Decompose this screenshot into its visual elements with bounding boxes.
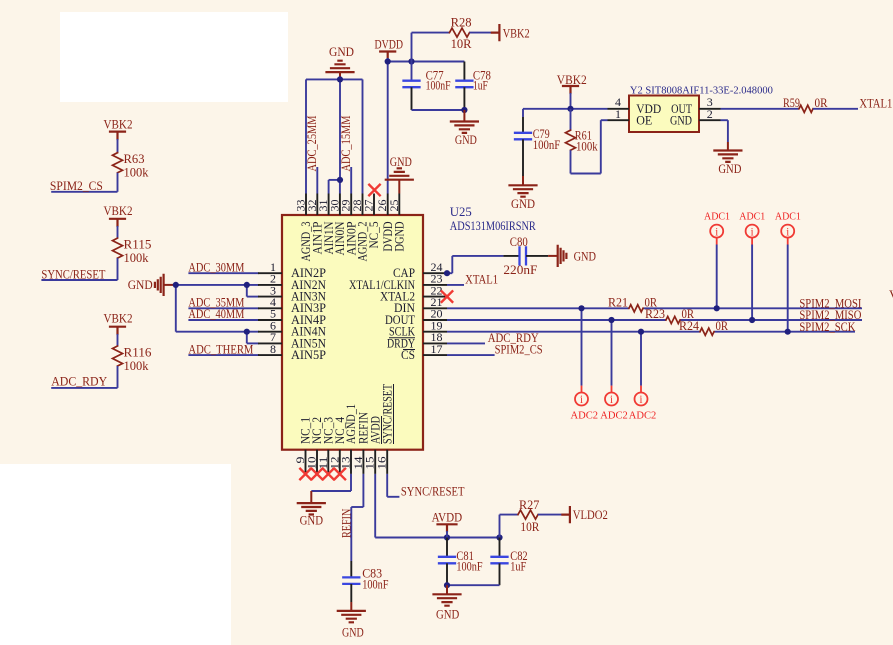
svg-text:DVDD: DVDD xyxy=(375,38,404,52)
svg-text:ADC1: ADC1 xyxy=(704,211,730,223)
port ADC2 #1 xyxy=(575,393,588,406)
resistor R59 xyxy=(799,105,813,112)
junction (GND wire) xyxy=(173,282,179,288)
svg-text:0R: 0R xyxy=(716,319,729,333)
junction (ADC1 MOSI) xyxy=(714,305,720,311)
resistor R24 xyxy=(700,328,714,335)
U25 DRDY underline xyxy=(403,349,415,351)
no-ERC marker pin 12 xyxy=(335,469,346,480)
wire VBK2 to Y2 VDD xyxy=(570,93,572,109)
wire DIN / SPIM2_MOSI xyxy=(447,307,629,309)
port ADC2 #2 xyxy=(605,393,618,406)
svg-text:16: 16 xyxy=(375,457,389,470)
junction (ADC2 DOUT) xyxy=(608,317,614,323)
Y2 pin 3 xyxy=(699,108,721,110)
svg-text:GND: GND xyxy=(300,513,323,527)
svg-text:R63: R63 xyxy=(124,152,145,166)
svg-text:1uF: 1uF xyxy=(473,79,488,93)
svg-text:1: 1 xyxy=(615,107,621,121)
svg-text:U25: U25 xyxy=(450,205,472,219)
junction (VBK2/R61) xyxy=(567,106,573,112)
svg-text:GND: GND xyxy=(342,626,364,640)
junction (C81 gnd) xyxy=(444,582,450,588)
resistor R63 xyxy=(117,139,119,153)
wire pin 18 DRDY xyxy=(447,342,485,344)
U25 AVDD underline xyxy=(381,416,383,444)
wire C81/C82 bottom xyxy=(447,584,500,586)
ground GND (C80) xyxy=(548,255,558,257)
svg-text:ADC2: ADC2 xyxy=(629,410,657,422)
wire ADC2 #2 to DOUT xyxy=(611,320,613,386)
wire ADC_RDY net xyxy=(117,366,119,388)
svg-text:i: i xyxy=(639,394,642,406)
capacitor C79 xyxy=(522,109,524,117)
svg-text:100nF: 100nF xyxy=(362,578,388,592)
svg-text:25: 25 xyxy=(387,200,401,212)
svg-text:R24: R24 xyxy=(679,319,700,333)
svg-text:ADS131M06IRSNR: ADS131M06IRSNR xyxy=(450,219,537,233)
no-ERC marker pin 22 xyxy=(442,291,453,302)
svg-text:Y2 SIT8008AIF11-33E-2.048000: Y2 SIT8008AIF11-33E-2.048000 xyxy=(630,85,773,97)
svg-text:220nF: 220nF xyxy=(503,263,537,277)
svg-text:GND: GND xyxy=(390,155,412,169)
svg-text:100k: 100k xyxy=(124,251,150,265)
junction (ADC1 MISO) xyxy=(749,317,755,323)
svg-text:8: 8 xyxy=(270,342,276,356)
wire pin 23 XTAL1 xyxy=(447,284,464,286)
wire pin 15 to AVDD rail xyxy=(374,474,376,538)
svg-text:CS: CS xyxy=(401,348,415,362)
svg-text:R115: R115 xyxy=(124,238,152,252)
junction (R28/C77 tap) xyxy=(408,58,414,64)
svg-text:R23: R23 xyxy=(645,307,665,321)
wire ADC_15MM to pin 29 xyxy=(350,167,352,194)
svg-text:AVDD: AVDD xyxy=(432,511,463,525)
wire ADC_25MM to pin 32 xyxy=(316,167,318,194)
wire Y2 OUT to R59 xyxy=(721,108,800,110)
wire SPIM2_CS net xyxy=(117,173,119,192)
power port VBK2 (R28) xyxy=(492,25,500,40)
wire R59 to XTAL1 xyxy=(813,108,858,110)
junction (ADC2 DIN) xyxy=(578,305,584,311)
wire GND to pins 2,3,6,7 xyxy=(176,284,259,286)
junction (ADC1 SCK) xyxy=(785,329,791,335)
junction (pin3 branch) xyxy=(244,282,250,288)
resistor R61 xyxy=(570,109,572,130)
wire pin 13 AGND_1 to GND xyxy=(350,474,352,491)
power port VLDO2 xyxy=(562,507,570,522)
capacitor C80 xyxy=(503,255,519,257)
wire ADC_40MM to pin 5 xyxy=(188,319,259,321)
svg-text:VBK2: VBK2 xyxy=(104,204,133,218)
svg-text:SPIM2_SCK: SPIM2_SCK xyxy=(799,320,856,334)
U25 top pins 25-33 xyxy=(305,194,307,216)
resistor R21 xyxy=(629,305,643,312)
svg-text:VLDO2: VLDO2 xyxy=(573,508,608,522)
svg-text:GND: GND xyxy=(511,197,535,211)
svg-text:VBK2: VBK2 xyxy=(104,312,133,326)
wire C77/C78 bottom xyxy=(412,109,465,111)
wire R61 to Y2 OE xyxy=(570,150,572,173)
svg-text:ADC2: ADC2 xyxy=(571,410,599,422)
IC U25 body xyxy=(282,215,423,450)
wire ADC1 #1 to MOSI xyxy=(716,238,718,245)
svg-text:ADC_RDY: ADC_RDY xyxy=(51,375,107,389)
svg-text:GND: GND xyxy=(455,133,477,147)
wire DOUT / SPIM2_MISO xyxy=(447,319,666,321)
no-ERC marker pin 9 xyxy=(300,469,311,480)
resistor R27 xyxy=(499,515,501,538)
svg-text:GND: GND xyxy=(436,607,459,621)
ground GND (Y2) xyxy=(727,142,729,151)
svg-text:100k: 100k xyxy=(124,359,150,373)
svg-text:V: V xyxy=(889,288,893,302)
junction (GND bus) xyxy=(337,76,343,82)
junction (R27/C82) xyxy=(496,534,502,540)
no-ERC marker pin 11 xyxy=(323,469,334,480)
svg-text:i: i xyxy=(580,394,583,406)
svg-text:100k: 100k xyxy=(124,166,150,180)
svg-text:VBK2: VBK2 xyxy=(104,117,133,131)
Y2 pin 2 xyxy=(699,119,721,121)
svg-text:SYNC/RESET: SYNC/RESET xyxy=(41,267,105,281)
svg-text:GND: GND xyxy=(574,249,596,263)
wire ADC_THERM to pin 8 xyxy=(188,354,259,356)
svg-text:R28: R28 xyxy=(451,15,472,29)
svg-text:GND: GND xyxy=(128,278,153,292)
resistor R115 xyxy=(117,226,119,238)
svg-text:ADC_15MM: ADC_15MM xyxy=(339,116,353,172)
svg-text:SPIM2_CS: SPIM2_CS xyxy=(50,179,103,193)
svg-text:ADC1: ADC1 xyxy=(775,211,801,223)
U25 left pins 1-8 xyxy=(258,272,282,274)
wire top GND bus pins 33,28,30,31 xyxy=(306,78,363,80)
svg-text:AIN5P: AIN5P xyxy=(291,348,326,362)
svg-text:i: i xyxy=(715,226,718,238)
junction (pin 24) xyxy=(444,270,450,276)
U25 bottom pins 9-16 xyxy=(305,450,307,474)
svg-text:ADC_30MM: ADC_30MM xyxy=(188,260,244,274)
svg-text:OE: OE xyxy=(636,114,652,128)
port ADC1 #2 xyxy=(746,225,759,238)
svg-text:GND: GND xyxy=(329,45,354,59)
wire ADC2 #1 to DIN xyxy=(581,308,583,385)
port ADC2 #3 xyxy=(635,393,648,406)
ground GND (C79) xyxy=(522,176,524,185)
junction (pin7 branch) xyxy=(244,329,250,335)
svg-text:100nF: 100nF xyxy=(533,138,561,152)
svg-text:R21: R21 xyxy=(608,295,628,309)
wire REFIN to C83 xyxy=(362,474,364,507)
svg-text:i: i xyxy=(786,226,789,238)
oscillator Y2 body xyxy=(629,96,699,133)
svg-text:GND: GND xyxy=(670,114,692,128)
wire SYNC/RESET net xyxy=(117,258,119,280)
svg-text:C80: C80 xyxy=(510,235,528,249)
svg-text:17: 17 xyxy=(431,342,443,356)
svg-text:R116: R116 xyxy=(124,346,153,360)
wire R28 to VBK2 xyxy=(470,32,492,34)
svg-text:ADC1: ADC1 xyxy=(739,211,765,223)
svg-text:ADC_THERM: ADC_THERM xyxy=(188,342,253,356)
svg-text:i: i xyxy=(750,226,753,238)
svg-text:GND: GND xyxy=(718,162,741,176)
wire ADC2 #3 to SCLK xyxy=(640,332,642,386)
resistor R116 xyxy=(117,334,119,346)
port ADC1 #3 xyxy=(781,225,794,238)
wire pin 17 CS xyxy=(447,354,495,356)
svg-text:ADC_40MM: ADC_40MM xyxy=(188,307,244,321)
svg-text:XTAL1: XTAL1 xyxy=(465,273,498,287)
svg-text:10R: 10R xyxy=(451,37,472,51)
wire ADC_30MM to pin 1 xyxy=(188,272,259,274)
junction (C78 gnd) xyxy=(461,107,467,113)
wire Y2 GND xyxy=(721,119,728,121)
svg-text:R59: R59 xyxy=(783,96,800,110)
svg-text:100k: 100k xyxy=(576,139,598,153)
junction (AVDD) xyxy=(444,534,450,540)
U25 SYNC/RESET underline xyxy=(393,384,395,444)
wire pin 16 SYNC/RESET xyxy=(386,474,388,497)
wire ADC1 #3 to SCK xyxy=(787,238,789,245)
ground GND (pin 13) xyxy=(310,491,312,503)
Y2 pin 4 xyxy=(608,108,630,110)
no-ERC marker pin 10 xyxy=(312,469,323,480)
svg-text:DGND: DGND xyxy=(393,221,407,251)
svg-text:ADC_25MM: ADC_25MM xyxy=(305,116,319,172)
svg-text:SYNC/RESET: SYNC/RESET xyxy=(380,384,394,444)
wire ADC_35MM to pin 4 xyxy=(188,307,259,309)
wire R27 to VLDO2 xyxy=(538,514,562,516)
svg-text:i: i xyxy=(610,394,613,406)
svg-text:SYNC/RESET: SYNC/RESET xyxy=(401,484,465,498)
svg-text:R27: R27 xyxy=(519,498,540,512)
wire DVDD to pin 26 xyxy=(387,58,389,194)
wire pin 24 CAP to C80 xyxy=(447,272,452,274)
capacitor C82 xyxy=(499,538,501,557)
resistor R23 xyxy=(666,316,680,323)
junction (ADC2 SCLK) xyxy=(638,329,644,335)
svg-text:ADC2: ADC2 xyxy=(600,410,628,422)
svg-text:REFIN: REFIN xyxy=(340,509,354,538)
Y2 pin 1 xyxy=(608,119,630,121)
U25 right pins 17-24 xyxy=(423,272,447,274)
ground GND (C77/C78) xyxy=(463,110,465,122)
ground GND (C81/C82) xyxy=(446,585,448,594)
no-ERC marker pin 27 xyxy=(369,185,380,196)
resistor R28 xyxy=(411,33,413,62)
svg-text:100nF: 100nF xyxy=(426,79,451,93)
capacitor C83 xyxy=(350,561,352,577)
wire ADC1 #2 to MISO xyxy=(751,238,753,245)
wire SCLK / SPIM2_SCK xyxy=(447,331,700,333)
junction (DVDD rail) xyxy=(385,58,391,64)
svg-text:27: 27 xyxy=(362,200,376,212)
svg-text:2: 2 xyxy=(707,107,713,121)
svg-text:NC_5: NC_5 xyxy=(367,222,381,249)
svg-text:SPIM2_CS: SPIM2_CS xyxy=(495,343,543,357)
port ADC1 #1 xyxy=(710,225,723,238)
svg-text:1uF: 1uF xyxy=(510,559,526,573)
ground GND (C83) xyxy=(350,602,352,611)
junction (AIN0N/AIN1N tie) xyxy=(337,177,343,183)
svg-text:0R: 0R xyxy=(815,96,828,110)
U25 SCLK underline xyxy=(389,337,415,339)
svg-text:100nF: 100nF xyxy=(456,559,482,573)
svg-text:10R: 10R xyxy=(520,520,539,534)
svg-text:VBK2: VBK2 xyxy=(503,26,530,40)
capacitor C78 xyxy=(463,62,465,81)
capacitor C81 xyxy=(446,538,448,557)
svg-text:XTAL1: XTAL1 xyxy=(859,96,892,110)
capacitor C77 xyxy=(411,62,413,81)
